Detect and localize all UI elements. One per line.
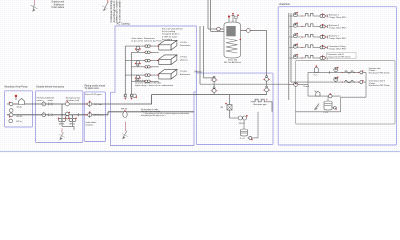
- svg-text:to soak away outside wall: to soak away outside wall: [118, 0, 121, 23]
- svg-text:Frost valves: Frost valves: [52, 6, 65, 9]
- FCU unit 3 isometric box: [157, 69, 177, 79]
- FCU row 3 flowmeter valves: [144, 74, 151, 83]
- return pipe plant room to heat pump: [7, 114, 108, 116]
- emergency valve return: [66, 112, 70, 119]
- drain arrow: [59, 128, 65, 140]
- svg-text:WP-02: WP-02: [239, 123, 246, 125]
- HP temperature sensor: [15, 95, 17, 100]
- flowmeter return: [42, 112, 46, 117]
- tank outlet pipe: [241, 30, 267, 32]
- HP valve return: [9, 113, 13, 118]
- header line flow: [200, 83, 289, 85]
- note text no dig: [141, 108, 189, 117]
- shutoff valve flow: [49, 103, 52, 105]
- svg-text:WP-01: WP-01: [59, 124, 65, 126]
- svg-text:HP xx: HP xx: [17, 121, 22, 123]
- label zone valves: [132, 37, 162, 43]
- HP body symbol: [19, 99, 25, 105]
- svg-text:Non-barrier PEX 25mm: Non-barrier PEX 25mm: [369, 85, 390, 87]
- svg-text:WP-06: WP-06: [121, 109, 128, 111]
- svg-text:Prices 15-25 pipes: Prices 15-25 pipes: [85, 94, 102, 96]
- svg-text:insulation: insulation: [85, 123, 93, 126]
- HP valve mid: [9, 109, 13, 113]
- buffer tank: [224, 22, 241, 58]
- UFH circuit row 1: [289, 12, 328, 18]
- HP valve bottom: [9, 119, 13, 123]
- header line return: [264, 94, 267, 96]
- drain labels: [59, 124, 75, 126]
- tank labels: [224, 60, 242, 65]
- drain pipe vertical: [61, 104, 63, 118]
- UFH row 4 label: [329, 45, 347, 51]
- gray box feed: [296, 111, 341, 113]
- svg-text:6 loops 16mm PEX: 6 loops 16mm PEX: [329, 48, 347, 50]
- union return: [85, 111, 91, 117]
- slab arrow: [314, 104, 320, 111]
- FCU row 2 flowmeter valves: [144, 59, 151, 68]
- gray box slabs: [296, 61, 396, 125]
- plant room arrow: [122, 122, 128, 140]
- FCU row 1 flowmeter valves: [144, 45, 151, 54]
- svg-text:Fan Coil Units (FCU): Fan Coil Units (FCU): [162, 27, 183, 30]
- labels performance meters: [37, 97, 81, 102]
- svg-text:Microbore pipe: Microbore pipe: [253, 104, 267, 106]
- expansion vessel mixing: [240, 120, 248, 140]
- tank inlet valve: [216, 27, 221, 31]
- svg-text:WP-02: WP-02: [69, 124, 75, 126]
- valve column: [211, 76, 217, 94]
- svg-text:valves (1 per FCU): valves (1 per FCU): [144, 40, 162, 43]
- pump WP-06: [121, 109, 128, 118]
- slab row A label: [369, 67, 390, 75]
- svg-text:AC Cooling: AC Cooling: [117, 21, 131, 25]
- box Piping inside house: [84, 92, 105, 142]
- svg-text:Monobloc Heat Pump: Monobloc Heat Pump: [5, 86, 29, 89]
- svg-text:(1 per zone): (1 per zone): [132, 40, 144, 43]
- tank inlet pipe: [208, 28, 224, 30]
- svg-text:1 FCUs: 1 FCUs: [180, 71, 188, 73]
- svg-text:Condensate discharge pipe: Condensate discharge pipe: [110, 0, 113, 23]
- svg-text:Non-barrier PEX 25mm: Non-barrier PEX 25mm: [369, 73, 390, 75]
- FCU unit 2 isometric box: [157, 55, 177, 65]
- flow pipe heat pump to plant room: [7, 103, 111, 105]
- svg-text:down through slab or wall: down through slab or wall: [113, 0, 116, 23]
- AC loop risers: [199, 26, 201, 84]
- FCU row 2 pipes: [125, 61, 159, 67]
- svg-text:behind wall to outside or: behind wall to outside or: [116, 0, 119, 23]
- tank top fittings: [228, 13, 239, 22]
- svg-text:2 loops 15mm PEX: 2 loops 15mm PEX: [329, 38, 347, 40]
- svg-text:Upstairs: Upstairs: [180, 58, 189, 61]
- svg-text:Pum S: Pum S: [304, 86, 310, 88]
- drain arrow top-left: [31, 0, 38, 12]
- svg-text:WP Return: WP Return: [94, 113, 104, 116]
- svg-text:To plant room: To plant room: [85, 87, 99, 90]
- svg-text:2 loops 15mm PEX: 2 loops 15mm PEX: [329, 17, 347, 19]
- UFH circuit row 4: [289, 43, 328, 49]
- svg-text:4 loops 15mm PEX 25mm: 4 loops 15mm PEX 25mm: [327, 57, 351, 59]
- slab circuit row A: [308, 65, 366, 76]
- FCU unit 1 isometric box: [157, 40, 177, 50]
- FCU row 1 zone valve: [135, 46, 141, 51]
- drain valve pair 1: [58, 118, 67, 122]
- svg-text:Outside behind heat pump: Outside behind heat pump: [36, 86, 65, 89]
- FCU row 3 pipes: [125, 75, 159, 81]
- UFH row 3 label: [329, 35, 347, 40]
- condensate arrow: [102, 0, 108, 11]
- slab circuit row B: [291, 77, 366, 84]
- deaerator line: [308, 91, 341, 98]
- slab vessel valve: [332, 107, 337, 110]
- note text top-left: [51, 1, 64, 10]
- FCU manifold risers: [125, 46, 131, 85]
- label inside rubber: [85, 121, 96, 126]
- label Piping inside house: [85, 84, 106, 90]
- svg-text:Bathrooms: Bathrooms: [180, 73, 191, 76]
- tank outlet valve: [240, 29, 252, 41]
- slab collector: [341, 72, 366, 111]
- tank risers: [207, 0, 209, 29]
- svg-text:Antifreeze: Antifreeze: [54, 3, 65, 6]
- rotated note text: [110, 0, 121, 23]
- UFH circuit row 2: [289, 22, 328, 28]
- svg-text:4 LWT for water: 4 LWT for water: [162, 35, 178, 38]
- UFH row 5 label box: [327, 53, 357, 59]
- union flow: [85, 101, 91, 107]
- UFH circuit row 5: [289, 54, 328, 60]
- junction tick: [78, 113, 80, 116]
- svg-text:Everything on the right is not: Everything on the right is not. ): [141, 114, 166, 117]
- microbore pipe: [251, 99, 272, 112]
- shutoff valve return: [49, 114, 52, 116]
- FCU row 1 pipes: [125, 46, 159, 52]
- three way mixing valve M: [221, 95, 233, 118]
- AC stub to valve column: [204, 77, 215, 79]
- svg-text:Designed 35-45 C: Designed 35-45 C: [162, 34, 180, 36]
- UFH row 1 label: [329, 13, 347, 19]
- svg-text:35-45: 35-45: [17, 107, 23, 109]
- downfeed riser: [266, 31, 268, 95]
- HP valve flow: [9, 102, 13, 106]
- pump WP-02: [230, 115, 248, 125]
- svg-text:for air cooling: for air cooling: [162, 30, 176, 33]
- svg-text:M xx: M xx: [315, 91, 319, 93]
- svg-text:WP Flow: WP Flow: [94, 104, 103, 106]
- slab pump Pum S: [289, 82, 310, 88]
- svg-text:meters: meters: [37, 99, 43, 102]
- flowmeter flow: [42, 101, 46, 106]
- FCU row 2 zone valve: [135, 61, 141, 66]
- svg-text:higher temp -> lower risk of c: higher temp -> lower risk of condensatio…: [135, 84, 174, 87]
- svg-text:P x S: P x S: [240, 138, 245, 140]
- svg-text:Downstairs: Downstairs: [180, 44, 192, 47]
- FCU unit 3 label: [180, 71, 191, 76]
- FCU info text block: [162, 27, 183, 41]
- FCU unit 1 label: [180, 42, 192, 47]
- tank riser valves: [263, 76, 269, 92]
- drain valve pair 2: [68, 118, 77, 122]
- FCU unit 2 label: [180, 57, 189, 62]
- box Monobloc Heat Pump: [5, 91, 33, 127]
- box Outside behind heat pump: [36, 91, 83, 143]
- svg-text:2 loops 15mm PEX: 2 loops 15mm PEX: [329, 27, 347, 29]
- bottom page line: [0, 151, 400, 153]
- plant valve pair: [124, 94, 137, 100]
- AC risers into plant room: [124, 86, 126, 98]
- UFH circuit row 3: [289, 33, 328, 39]
- svg-text:300 Tuls AB 300 wt: 300 Tuls AB 300 wt: [224, 61, 242, 64]
- svg-text:1 FCUs: 1 FCUs: [180, 42, 188, 44]
- svg-text:valves: valves: [48, 100, 54, 102]
- svg-text:HP-05: HP-05: [17, 116, 24, 118]
- svg-text:Underfloor: Underfloor: [279, 3, 290, 6]
- slab expansion vessel: [324, 96, 333, 114]
- box Mixing: [196, 73, 273, 144]
- group box AC cooling + plant room left (combined polygon): [111, 26, 197, 146]
- slab row B label: [369, 79, 390, 87]
- slab header riser: [307, 72, 309, 96]
- svg-text:Outdoor unit: Outdoor unit: [51, 1, 64, 4]
- UFH row 2 label: [329, 24, 347, 30]
- FCU row 3 zone valve: [135, 75, 141, 80]
- box Underfloor: [278, 7, 396, 145]
- drain collector: [62, 122, 74, 130]
- svg-text:1 FCUs: 1 FCUs: [180, 57, 188, 59]
- underfloor manifold risers: [289, 13, 291, 100]
- background grid: [0, 0, 400, 154]
- emergency valve flow: [65, 101, 69, 106]
- vessel valve: [248, 112, 259, 140]
- svg-text:P as: P as: [314, 75, 318, 77]
- AC cooling note: [135, 79, 174, 87]
